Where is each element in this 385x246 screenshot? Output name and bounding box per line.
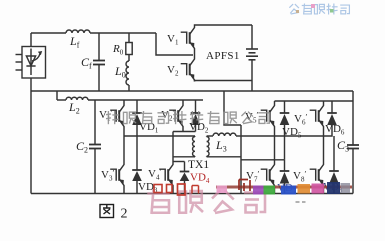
wire V1p emitter to node xyxy=(123,128,125,136)
wire VD2 bottom join xyxy=(195,125,197,132)
IGBT V8' xyxy=(310,163,324,187)
wire rectifier top to rail xyxy=(30,33,32,47)
wire filter to V1V2 midpoint xyxy=(156,33,193,55)
IGBT V1 xyxy=(181,26,195,50)
wire V7p collector xyxy=(274,160,276,163)
wire VD8 bottom xyxy=(333,184,335,194)
wire TX secondary bottom stub xyxy=(206,155,208,158)
top rail right segment xyxy=(90,32,156,34)
wire V3p collector xyxy=(123,136,125,163)
wire V5p collector xyxy=(274,101,276,104)
inductor L2 coil xyxy=(66,97,88,100)
watermark top right blue glyphs xyxy=(289,4,349,15)
wire C2 top xyxy=(94,100,96,144)
wire battery to return rail xyxy=(251,81,253,92)
wire L3 out xyxy=(236,135,241,137)
wire VD4 top lead xyxy=(173,161,185,163)
rectifier box U1 xyxy=(22,47,46,79)
wire VD7 bottom xyxy=(284,184,286,194)
wire V1p collector xyxy=(123,100,125,104)
wire V6p collector xyxy=(323,101,325,104)
wire VD5 top xyxy=(284,101,286,113)
wire leg B mid vertical xyxy=(172,132,174,164)
left vertical bus wire xyxy=(30,78,32,194)
wire VD3 top xyxy=(136,136,138,170)
wire VD4 bottom xyxy=(184,181,186,194)
wire VD6 top xyxy=(331,101,333,113)
thyristor symbol inside rectifier xyxy=(26,49,42,76)
diode VD2 xyxy=(191,113,201,125)
watermark red bracket marks near VD3 xyxy=(154,185,172,193)
wire bus drop to right bridge xyxy=(224,91,241,125)
watermark pink company text xyxy=(147,189,265,214)
wire TX secondary bottom lead xyxy=(207,156,241,158)
svg-text:V7′: V7′ xyxy=(246,170,259,184)
wire V3p emitter xyxy=(123,187,125,194)
capacitor C3 xyxy=(347,145,359,149)
wire TX primary bottom stub xyxy=(194,155,196,158)
svg-text:TX1: TX1 xyxy=(188,159,209,171)
diode VD5 xyxy=(280,113,290,125)
left bridge top rail xyxy=(88,99,203,101)
svg-text:2: 2 xyxy=(121,207,128,222)
battery APFS1 energy storage xyxy=(246,49,258,60)
IGBT V1' xyxy=(110,104,124,128)
wire V2p collector xyxy=(182,100,184,104)
wire to leg C midpoint xyxy=(241,159,285,161)
wire VD1 top xyxy=(136,100,138,113)
inductor Lf coil xyxy=(66,30,90,33)
wire Cf bottom xyxy=(98,65,100,92)
watermark gray company text row xyxy=(106,111,269,124)
wire battery bottom lead xyxy=(251,60,253,81)
right vertical upper xyxy=(352,91,354,145)
wire V2 emitter to battery bottom xyxy=(195,81,253,82)
diode VD8 xyxy=(329,171,339,184)
watermark red mark 2 xyxy=(178,184,186,195)
capacitor Cf xyxy=(93,61,105,65)
watermark colorful logo row bottom right xyxy=(216,182,352,195)
transformer TX1 primary winding xyxy=(193,137,195,157)
diode VD3 xyxy=(132,170,142,181)
wire R0 top xyxy=(128,33,130,43)
caption figure glyph tu xyxy=(100,205,114,218)
wire VD6 bottom join xyxy=(324,125,333,136)
right bridge top rail xyxy=(275,100,354,102)
resistor R0 xyxy=(126,43,132,55)
wire TX primary top stub xyxy=(194,135,196,138)
wire to leg D midpoint xyxy=(241,135,324,137)
wire TX secondary top stub xyxy=(206,135,208,138)
AC input wire 1 xyxy=(16,54,23,56)
diode VD4 xyxy=(180,172,190,182)
IGBT V3' xyxy=(110,163,124,187)
IGBT V4' xyxy=(159,163,173,187)
wire L2 drop xyxy=(56,91,58,100)
wire Cf top xyxy=(98,33,100,60)
wire node A to TX primary top xyxy=(124,135,195,137)
wire C2 bottom xyxy=(94,149,96,194)
wire V5p emitter to node C xyxy=(274,128,276,160)
watermark small gray dashes xyxy=(296,201,306,203)
wire V1 emitter to V2 collector xyxy=(194,50,196,58)
IGBT V2' xyxy=(169,104,183,128)
wire VD4 top xyxy=(184,162,186,172)
svg-text:V6′: V6′ xyxy=(294,113,307,127)
wire V8p emitter xyxy=(323,187,325,194)
IGBT V7' xyxy=(261,163,275,187)
wire R0 to L0 xyxy=(128,55,130,62)
wire VD8 top xyxy=(333,136,335,171)
wire VD7 top xyxy=(284,160,286,171)
wire L2 lead xyxy=(57,99,66,101)
watermark red mark 3 xyxy=(239,180,250,192)
diode VD7 xyxy=(280,171,290,184)
top rail left segment xyxy=(31,32,66,34)
wire V8p collector xyxy=(323,136,325,163)
wire L3 lead xyxy=(207,135,213,137)
wire VD2 top xyxy=(195,100,197,113)
watermark red mark extra xyxy=(192,186,199,194)
IGBT V6' xyxy=(310,104,324,128)
bottom rail xyxy=(31,193,353,195)
diode VD1 xyxy=(132,113,142,125)
middle return rail xyxy=(31,90,353,92)
AC input wire 3 xyxy=(16,69,23,71)
svg-text:APFS1: APFS1 xyxy=(206,50,240,62)
wire VD5 bottom xyxy=(284,125,286,160)
watermark top right colored specks xyxy=(296,4,334,13)
svg-text:V3′: V3′ xyxy=(101,169,114,183)
right vertical lower xyxy=(352,149,354,194)
wire V4p emitter xyxy=(172,187,174,194)
AC input wire 2 xyxy=(16,61,23,63)
wire VD3 bottom xyxy=(136,181,138,194)
wire V1 collector to battery xyxy=(195,25,253,26)
wire V2p emitter to node B xyxy=(182,128,184,132)
capacitor C2 xyxy=(89,145,101,149)
wire leg B mid node xyxy=(173,131,196,133)
wire battery top lead xyxy=(251,25,253,49)
wire VD1 bottom xyxy=(136,125,138,136)
diode VD6 xyxy=(327,113,337,125)
IGBT V2 xyxy=(181,58,195,82)
right bridge bus vertical xyxy=(240,125,242,194)
wire L0 bottom xyxy=(128,85,130,91)
transformer TX1 secondary winding xyxy=(207,137,209,157)
wire V6p emitter to node D xyxy=(323,128,325,136)
IGBT V5' xyxy=(261,104,275,128)
wire node B to TX primary bottom xyxy=(173,156,195,158)
inductor L3 coil xyxy=(213,133,236,136)
wire V7p emitter xyxy=(274,187,276,194)
inductor L0 coil xyxy=(126,61,129,85)
svg-text:V8′: V8′ xyxy=(293,170,306,184)
